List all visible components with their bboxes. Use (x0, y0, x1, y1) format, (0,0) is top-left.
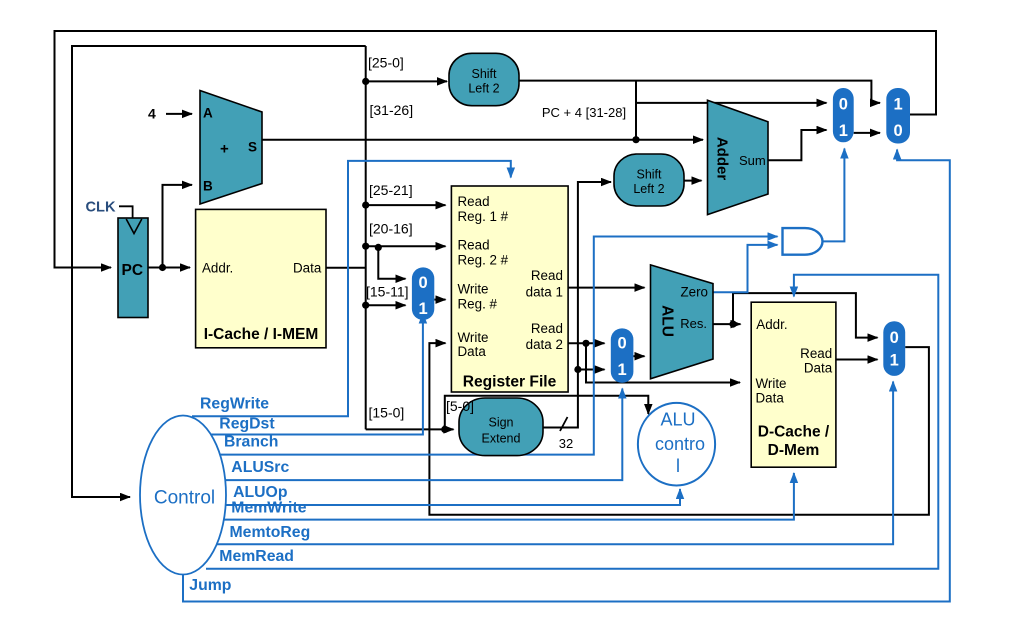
svg-text:[25-0]: [25-0] (368, 55, 404, 71)
wire sign extend out to shift-left-2 (543, 182, 611, 428)
svg-text:Data: Data (756, 391, 785, 406)
svg-text:Res.: Res. (680, 316, 707, 331)
wire instruction Data bus from I-Cache to vertical (326, 267, 365, 269)
svg-text:data 2: data 2 (526, 337, 563, 352)
svg-text:Write: Write (458, 282, 489, 297)
node instr[20-16]b (375, 244, 382, 251)
svg-text:0: 0 (839, 95, 848, 113)
svg-text:Zero: Zero (680, 284, 708, 299)
svg-text:Read: Read (458, 194, 490, 209)
wire PC-loop from jump mux output to PC input (55, 31, 937, 268)
svg-text:4: 4 (148, 106, 156, 122)
svg-text:[5-0]: [5-0] (446, 398, 474, 414)
wire [20-16] branch to RegDst mux 0 (378, 247, 405, 278)
register PC (118, 218, 148, 318)
svg-text:Left 2: Left 2 (633, 182, 664, 196)
shift-left-2 SL1 (jump) (449, 53, 519, 105)
svg-text:MemtoReg: MemtoReg (230, 524, 311, 541)
svg-text:RegDst: RegDst (219, 415, 275, 432)
wire [15-0] to sign extend (366, 428, 454, 430)
svg-text:Data: Data (293, 260, 322, 275)
svg-text:D-Mem: D-Mem (768, 442, 820, 459)
svg-text:[15-0]: [15-0] (369, 404, 405, 420)
mux Jump (886, 88, 910, 144)
control unit ellipse (140, 416, 226, 575)
node sign-extend-out (574, 366, 581, 373)
svg-text:CLK: CLK (86, 200, 116, 216)
svg-text:Read: Read (458, 237, 490, 252)
wire Zero to AND gate (713, 245, 778, 292)
wire MemtoReg signal (217, 382, 893, 545)
node instr[15-11] (362, 302, 369, 309)
svg-text:Write: Write (756, 376, 787, 391)
node instr[25-0] (362, 78, 369, 85)
svg-text:Reg. #: Reg. # (458, 297, 498, 312)
wire [20-16] to Read Reg 2 (366, 245, 446, 247)
wire ALUSrc mux out to ALU (633, 355, 644, 357)
wire ALUOp signal (224, 489, 680, 505)
node instr[20-16] (362, 243, 369, 250)
svg-text:Shift: Shift (471, 67, 497, 81)
wire ALUSrc signal (224, 389, 622, 481)
svg-text:0: 0 (894, 122, 903, 140)
svg-text:l: l (676, 456, 680, 476)
svg-text:Addr.: Addr. (756, 317, 787, 332)
wire [25-0] to shift-left-2 (366, 80, 447, 82)
wire branch mux out to jump mux 0 (854, 132, 880, 134)
svg-text:1: 1 (890, 352, 899, 370)
svg-text:Left 2: Left 2 (468, 82, 499, 96)
svg-text:PC + 4 [31-28]: PC + 4 [31-28] (542, 105, 626, 120)
node alu-result (729, 321, 736, 328)
svg-text:Shift: Shift (636, 167, 662, 181)
wire [5-0] to ALU control (445, 396, 649, 430)
mux MemtoReg (883, 321, 905, 376)
wire [15-11] to RegDst mux 1 (366, 304, 406, 306)
svg-text:Reg. 2 #: Reg. 2 # (458, 252, 509, 267)
svg-text:ALUOp: ALUOp (233, 484, 287, 501)
svg-text:MemWrite: MemWrite (231, 500, 306, 517)
node PC+4 (632, 136, 639, 143)
svg-text:[15-11]: [15-11] (366, 284, 409, 300)
node instr[25-21] (362, 202, 369, 209)
svg-text:Reg. 1 #: Reg. 1 # (458, 209, 509, 224)
wire PC out to I-Cache Addr (148, 267, 190, 269)
wire MemWrite signal (223, 473, 794, 520)
wire Jump signal (183, 150, 950, 602)
wire Sum to branch mux 1 (768, 130, 827, 160)
wire write-back to Register File Write Data (429, 343, 929, 515)
svg-text:ALU: ALU (660, 410, 695, 430)
wire Branch signal to AND gate (220, 237, 778, 455)
box I-Cache / I-MEM (196, 209, 326, 347)
slash 32 bit-width mark (560, 417, 568, 431)
box Register File (451, 186, 568, 392)
alu (651, 265, 714, 379)
wire constant 4 to adder A (166, 113, 192, 115)
wire ALU result to D-Cache Addr (713, 323, 741, 325)
mux RegDst (412, 267, 434, 320)
svg-text:Jump: Jump (189, 577, 231, 594)
svg-text:1: 1 (618, 361, 627, 379)
svg-text:0: 0 (890, 329, 899, 347)
wire shift-left-2 out to branch adder (684, 180, 702, 182)
and gate (branch) (783, 228, 823, 255)
node instr[5-0] (441, 426, 448, 433)
box D-Cache / D-Mem (751, 302, 836, 467)
svg-text:1: 1 (839, 122, 848, 140)
svg-text:Addr.: Addr. (202, 260, 233, 275)
svg-text:A: A (203, 106, 213, 121)
svg-text:PC: PC (122, 262, 144, 279)
svg-text:Data: Data (458, 344, 487, 359)
svg-text:Read: Read (800, 346, 832, 361)
node read-data-2 (582, 340, 589, 347)
svg-text:[31-26]: [31-26] (370, 102, 414, 118)
svg-text:0: 0 (618, 334, 627, 352)
svg-text:1: 1 (419, 300, 428, 318)
adder U2 (branch target) (708, 100, 769, 214)
svg-text:Sum: Sum (739, 153, 766, 168)
svg-text:MemRead: MemRead (219, 548, 294, 565)
svg-text:Branch: Branch (224, 434, 278, 451)
svg-text:32: 32 (559, 436, 573, 451)
adder U1 (PC+4) (200, 91, 262, 205)
svg-text:Register File: Register File (463, 373, 557, 390)
svg-text:Control: Control (154, 488, 215, 509)
wire RegDst signal (210, 314, 423, 435)
svg-text:ALU: ALU (658, 305, 675, 337)
wire opcode to Control (72, 46, 366, 497)
svg-text:data 1: data 1 (526, 285, 563, 300)
svg-text:+: + (220, 141, 229, 158)
wire sign extend branch to ALUSrc mux 1 (578, 369, 605, 371)
wire ALU result branch to MemtoReg mux 0 (733, 293, 878, 338)
svg-text:contro: contro (655, 434, 705, 454)
svg-text:[20-16]: [20-16] (369, 221, 413, 237)
svg-text:Write: Write (458, 330, 489, 345)
node PC-out (159, 264, 166, 271)
svg-text:RegWrite: RegWrite (200, 396, 269, 413)
wire [25-21] to Read Reg 1 (366, 204, 446, 206)
alu control ellipse (638, 403, 715, 486)
svg-text:Extend: Extend (482, 432, 521, 446)
wire MemRead signal (206, 275, 938, 569)
wire jump address to jump mux 1 (519, 81, 880, 103)
svg-text:Sign: Sign (488, 416, 513, 430)
wire AND gate out to branch mux select (823, 149, 845, 242)
wire Read data 2 to ALUSrc mux 0 (568, 342, 604, 344)
wire RegWrite signal (192, 161, 511, 416)
wire instruction vertical bus (365, 46, 367, 429)
mux Branch (PCSrc) (833, 88, 854, 142)
wire D-Cache Read Data to MemtoReg mux 1 (836, 359, 878, 361)
svg-text:Read: Read (531, 268, 563, 283)
svg-text:Adder: Adder (714, 137, 731, 181)
wire Read data 2 branch to D-Cache Write Data (586, 343, 740, 382)
wire PC to adder B (163, 185, 193, 268)
wire RegDst mux out to Write Reg (434, 299, 445, 301)
wire PC+4 branch up to jump line (635, 81, 637, 140)
mux ALUSrc (611, 328, 634, 382)
svg-text:I-Cache / I-MEM: I-Cache / I-MEM (204, 326, 319, 343)
svg-text:1: 1 (894, 95, 903, 113)
svg-text:D-Cache /: D-Cache / (758, 424, 830, 441)
wire CLK to PC clock (119, 206, 133, 218)
wire PC+4 from adder S to branch adder (262, 139, 703, 141)
svg-text:Data: Data (804, 361, 833, 376)
wire PC+4 to branch mux 0 (636, 102, 827, 104)
svg-text:Read: Read (531, 321, 563, 336)
svg-text:B: B (203, 179, 213, 194)
svg-text:0: 0 (419, 274, 428, 292)
sign extend (459, 398, 543, 456)
shift-left-2 SL2 (branch) (614, 154, 684, 206)
svg-text:ALUSrc: ALUSrc (231, 459, 289, 476)
svg-text:[25-21]: [25-21] (369, 182, 413, 198)
wire Read data 1 to ALU (568, 287, 644, 289)
svg-text:S: S (248, 140, 257, 155)
